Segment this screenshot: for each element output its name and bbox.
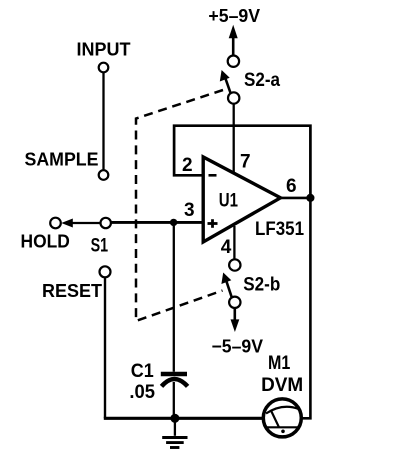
junction output node [306,194,314,202]
svg-text:C1: C1 [131,361,154,382]
ground [174,418,176,436]
svg-text:2: 2 [182,155,193,176]
svg-text:S2-a: S2-a [244,70,280,91]
hold terminal [50,218,61,229]
capacitor C1 [161,372,187,377]
switch S1 blade arrow [61,219,73,228]
switch S2-a [228,56,239,67]
wire pin 4 [233,226,235,259]
svg-text:DVM: DVM [261,375,303,396]
svg-text:INPUT: INPUT [77,39,131,59]
op-amp U1 [203,157,280,242]
junction ground node [170,414,179,423]
svg-text:4: 4 [221,237,232,258]
svg-text:LF351: LF351 [255,219,304,240]
reset terminal [100,266,111,277]
wire bottom rail [104,417,262,420]
sample terminal [99,170,109,180]
wire arrow down to -5-9V [234,308,237,320]
meter M1 [263,399,301,437]
svg-text:6: 6 [286,176,297,197]
svg-text:+5–9V: +5–9V [208,6,260,26]
svg-text:RESET: RESET [42,281,102,301]
svg-text:7: 7 [240,152,251,173]
svg-text:3: 3 [184,200,195,221]
input terminal [99,63,109,73]
wire right rail down to meter [302,198,310,418]
svg-text:−5–9V: −5–9V [212,337,264,357]
wire arrow up to +5-9V [232,38,235,56]
svg-text:M1: M1 [268,353,291,374]
wire output [281,197,311,200]
wire to pin 3 [111,221,204,224]
mechanical link dashed wire [136,90,223,321]
switch S2-b [229,259,240,270]
svg-text:.05: .05 [129,382,155,403]
feedback wire (output to pin 2) [174,126,310,194]
plus input mark [208,222,218,225]
svg-text:HOLD: HOLD [21,232,70,252]
svg-text:S2-b: S2-b [243,274,280,295]
svg-text:SAMPLE: SAMPLE [25,150,99,170]
wire [102,72,104,170]
wire hold cap [173,226,175,372]
wire reset down [104,277,106,418]
minus input mark [209,174,217,177]
svg-text:S1: S1 [91,235,109,256]
junction pin3 node [170,219,177,226]
wire cap to ground node [173,382,175,418]
S1 pole terminal [101,218,111,228]
wire pin 7 [233,104,235,172]
svg-text:U1: U1 [219,191,239,212]
